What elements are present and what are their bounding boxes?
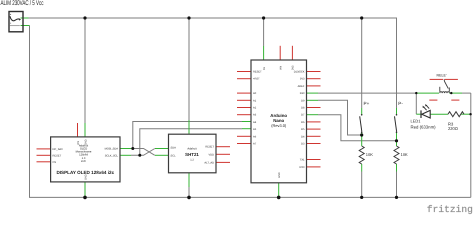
svg-text:A0: A0 bbox=[253, 92, 257, 95]
svg-text:D5: D5 bbox=[301, 128, 305, 131]
svg-text:A6: A6 bbox=[253, 135, 257, 138]
svg-text:inch: inch bbox=[81, 160, 86, 163]
svg-text:MOSI_SDA: MOSI_SDA bbox=[105, 148, 119, 151]
svg-text:(Rev3.0): (Rev3.0) bbox=[271, 123, 287, 128]
svg-text:VDD: VDD bbox=[209, 153, 215, 156]
svg-text:ALIM 230VAC / 5 Vcc: ALIM 230VAC / 5 Vcc bbox=[1, 0, 44, 7]
svg-text:DISPLAY OLED 128x64 i2c: DISPLAY OLED 128x64 i2c bbox=[56, 170, 114, 175]
svg-text:10K: 10K bbox=[401, 152, 408, 157]
svg-text:D7: D7 bbox=[301, 114, 305, 117]
svg-text:RX0: RX0 bbox=[299, 166, 305, 169]
svg-text:A1: A1 bbox=[253, 99, 257, 102]
svg-text:SCLK_SCL: SCLK_SCL bbox=[105, 154, 119, 157]
svg-text:D4: D4 bbox=[301, 135, 305, 138]
svg-text:A5: A5 bbox=[253, 128, 257, 131]
svg-text:LED1: LED1 bbox=[411, 119, 422, 124]
svg-text:RESET: RESET bbox=[205, 146, 214, 149]
svg-text:D3: D3 bbox=[301, 143, 305, 146]
svg-text:A2: A2 bbox=[253, 107, 257, 110]
svg-text:+RST: +RST bbox=[253, 78, 260, 81]
svg-text:3V3: 3V3 bbox=[292, 65, 295, 70]
svg-text:DC_SA0: DC_SA0 bbox=[53, 148, 64, 151]
svg-text:P+: P+ bbox=[364, 101, 370, 106]
svg-text:CS: CS bbox=[53, 161, 57, 164]
svg-text:ALT_AD: ALT_AD bbox=[204, 161, 214, 164]
svg-text:SDA: SDA bbox=[171, 146, 177, 149]
svg-text:D10: D10 bbox=[300, 92, 305, 95]
svg-text:1.2: 1.2 bbox=[190, 158, 194, 161]
svg-text:P-: P- bbox=[398, 101, 403, 106]
svg-text:GND: GND bbox=[85, 139, 88, 145]
svg-text:VIN: VIN bbox=[280, 66, 283, 70]
svg-text:A3: A3 bbox=[253, 114, 257, 117]
svg-text:D8: D8 bbox=[301, 107, 305, 110]
svg-text:A4: A4 bbox=[253, 121, 257, 124]
svg-text:3V3: 3V3 bbox=[300, 78, 305, 81]
svg-text:A7: A7 bbox=[253, 143, 257, 146]
svg-text:D13/SCK: D13/SCK bbox=[294, 71, 305, 74]
svg-text:RESET: RESET bbox=[253, 71, 262, 74]
svg-text:GND: GND bbox=[278, 172, 281, 178]
svg-text:AREF: AREF bbox=[298, 85, 305, 88]
svg-text:SHT21: SHT21 bbox=[185, 152, 199, 157]
svg-text:5V: 5V bbox=[263, 67, 266, 70]
svg-text:Adafruit: Adafruit bbox=[187, 148, 197, 151]
svg-text:RESET: RESET bbox=[53, 154, 62, 157]
svg-text:GND: GND bbox=[85, 174, 88, 180]
svg-text:220Ω: 220Ω bbox=[448, 126, 458, 131]
svg-text:TX1: TX1 bbox=[300, 159, 305, 162]
svg-text:D9: D9 bbox=[301, 99, 305, 102]
svg-text:RELE': RELE' bbox=[437, 73, 447, 77]
svg-text:D6: D6 bbox=[301, 121, 305, 124]
svg-text:VIN: VIN bbox=[77, 141, 80, 145]
svg-text:10K: 10K bbox=[366, 152, 373, 157]
svg-text:Red (633nm): Red (633nm) bbox=[411, 125, 437, 130]
svg-text:SCL: SCL bbox=[171, 154, 177, 157]
